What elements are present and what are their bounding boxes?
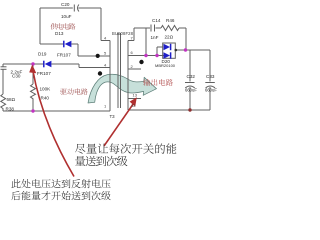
svg-text:660uF: 660uF: [205, 88, 217, 93]
svg-text:10uF: 10uF: [61, 14, 72, 19]
svg-text:C30: C30: [12, 73, 21, 78]
svg-text:22Ω: 22Ω: [165, 35, 174, 40]
svg-text:D19: D19: [38, 52, 47, 57]
svg-text:660uF: 660uF: [185, 88, 197, 93]
svg-text:13: 13: [133, 92, 138, 97]
svg-text:12: 12: [131, 103, 136, 108]
svg-text:C20: C20: [61, 2, 70, 7]
svg-text:T3: T3: [110, 114, 116, 119]
svg-text:FR107: FR107: [37, 71, 51, 76]
svg-text:C32: C32: [187, 74, 196, 79]
svg-text:100K: 100K: [40, 86, 52, 91]
svg-text:MBR20100: MBR20100: [155, 63, 176, 68]
svg-text:D13: D13: [55, 31, 64, 36]
svg-text:68Ω: 68Ω: [7, 97, 16, 102]
svg-text:1nF: 1nF: [151, 35, 159, 40]
svg-text:R46: R46: [166, 18, 175, 23]
svg-text:R40: R40: [41, 96, 50, 101]
svg-text:R38: R38: [6, 107, 15, 112]
svg-text:C14: C14: [152, 18, 161, 23]
svg-text:C33: C33: [206, 74, 215, 79]
svg-text:FR107: FR107: [57, 52, 71, 57]
